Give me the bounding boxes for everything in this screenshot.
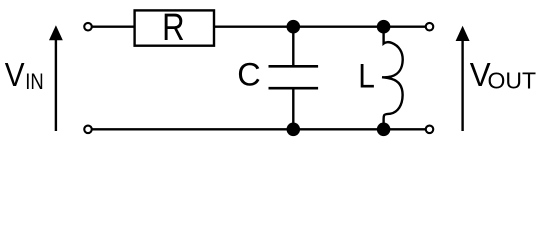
arrow V_OUT	[456, 26, 470, 131]
output terminal bottom (open circle)	[426, 126, 434, 134]
label C	[237, 57, 260, 93]
label L	[358, 57, 375, 95]
node C (junction dot, bottom of C)	[287, 123, 301, 137]
svg-text:R: R	[162, 7, 185, 49]
svg-text:OUT: OUT	[488, 67, 537, 93]
label V_OUT	[470, 56, 536, 93]
wire: node B to output terminal top	[384, 26, 426, 28]
svg-text:L: L	[358, 57, 375, 95]
resistor R	[135, 7, 214, 49]
label V_IN	[5, 57, 44, 95]
node D (junction dot, bottom of L)	[377, 123, 391, 137]
bottom wire	[93, 128, 427, 130]
input terminal bottom (open circle)	[84, 126, 92, 134]
wire: node A to node B	[293, 26, 383, 28]
output terminal top (open circle)	[426, 23, 434, 31]
svg-text:IN: IN	[25, 69, 43, 94]
arrow V_IN	[49, 25, 63, 131]
input terminal top (open circle)	[84, 23, 92, 31]
node A (junction dot, top of C)	[287, 20, 301, 34]
node B (junction dot, top of L)	[377, 20, 391, 34]
inductor L	[382, 27, 403, 130]
wire: resistor to node A	[214, 26, 293, 28]
svg-text:C: C	[237, 57, 260, 93]
svg-text:V: V	[5, 57, 25, 94]
wire: input terminal to resistor	[93, 26, 136, 28]
capacitor C	[269, 27, 319, 130]
